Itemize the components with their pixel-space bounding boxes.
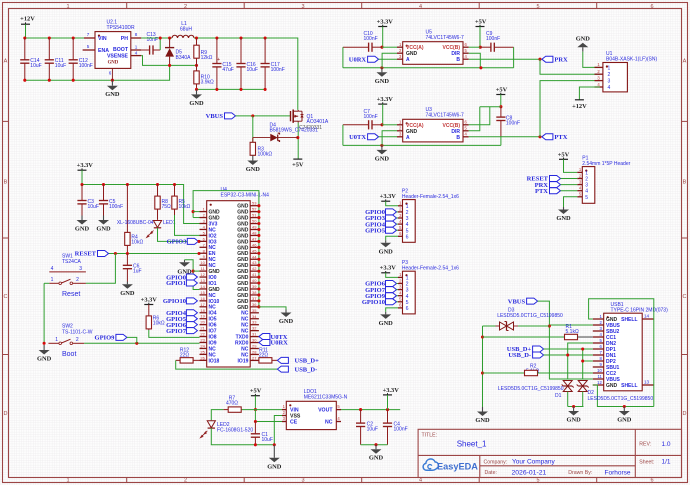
wire output cap gnd row: [197, 88, 266, 90]
pin 6 U3: [463, 124, 469, 126]
svg-text:B: B: [683, 180, 687, 186]
svg-text:Drawn By:: Drawn By:: [568, 470, 592, 476]
pin 5 P1: [577, 196, 582, 198]
svg-text:1: 1: [585, 170, 588, 176]
resistor R9 12k: [196, 38, 198, 45]
junction U2 GND bottom: [111, 79, 114, 82]
ground GND below C6: [126, 282, 128, 285]
resistor R12 22R: [176, 359, 180, 361]
junction VCCB U5: [479, 46, 482, 49]
svg-text:B340A: B340A: [176, 55, 192, 61]
junction CC2 rail: [481, 371, 484, 374]
pin 24 U4 NC: [200, 347, 207, 349]
ground GND below D1 D2: [573, 407, 575, 412]
svg-text:GND: GND: [566, 417, 581, 424]
pin 29 U4 NC: [250, 348, 259, 350]
net flag GPIO0 at P2: [386, 209, 397, 215]
wire SW1 pin1 down: [44, 282, 49, 284]
svg-text:GND: GND: [267, 463, 282, 470]
junction C11: [48, 36, 51, 39]
svg-text:20: 20: [200, 320, 205, 325]
svg-text:+5V: +5V: [475, 19, 487, 26]
net flag VBUS at USB: [527, 298, 538, 304]
wire Q1 drain to +5V: [297, 123, 299, 159]
net flag GPIO7: [186, 328, 197, 334]
junction PRX: [538, 58, 541, 61]
svg-text:13: 13: [200, 278, 205, 283]
svg-text:100nF: 100nF: [506, 120, 520, 126]
svg-text:14: 14: [200, 284, 205, 289]
wire DN1 row: [544, 354, 593, 356]
wire GND pin loop U5: [382, 53, 397, 68]
svg-text:+5V: +5V: [496, 87, 508, 94]
svg-text:4: 4: [419, 4, 422, 10]
junction U4 right GND row 50: [257, 222, 260, 225]
junction C17 top: [264, 36, 267, 39]
junction C2: [359, 408, 362, 411]
svg-text:U0RX: U0RX: [271, 340, 289, 347]
capacitor C15 47uF polarized: [216, 38, 218, 64]
pin 5 ENA: [83, 49, 95, 51]
svg-text:GND: GND: [475, 417, 490, 424]
svg-text:+5V: +5V: [292, 161, 304, 168]
junction shell gnd: [623, 405, 626, 408]
junction LDO gnd: [374, 443, 377, 446]
pin 3 LDO1: [282, 421, 286, 423]
wire C9 gnd loop right: [513, 47, 515, 68]
svg-text:B: B: [4, 180, 8, 186]
svg-text:+3.3V: +3.3V: [377, 19, 394, 26]
svg-text:48: 48: [252, 230, 257, 235]
power flag +12V below U1: [575, 99, 584, 101]
pin 4 U1: [595, 86, 603, 88]
pin 4 U3: [463, 136, 469, 138]
pin 4 U4 NC: [200, 228, 207, 230]
pin 3 USB1 SBU2: [593, 330, 604, 332]
wire +5V stem U3: [500, 95, 502, 107]
svg-text:100nF: 100nF: [486, 36, 500, 42]
wire GND to pins 11/14: [185, 260, 200, 290]
junction U4 right GND row 39: [257, 287, 260, 290]
wire U4 gnd ring top: [193, 191, 259, 307]
ground GND below R10: [196, 89, 198, 94]
pin 3 P1: [577, 184, 582, 186]
pin 21 U4 IO7: [200, 330, 207, 332]
wire +3.3V to P3 pin1: [386, 273, 398, 278]
svg-text:USB_D+: USB_D+: [295, 358, 320, 365]
junction C15 bottom: [215, 88, 218, 91]
svg-text:A: A: [683, 59, 687, 65]
svg-text:SHELL: SHELL: [621, 383, 637, 389]
pin 7 VIN: [84, 37, 95, 39]
pin 4 P2: [398, 223, 403, 225]
svg-text:GPIO7: GPIO7: [166, 328, 187, 335]
wire VBUS to Q1 gate: [236, 115, 291, 117]
capacitor C11: [48, 38, 50, 60]
pin 51 U4 GND: [250, 217, 259, 219]
junction CE node: [254, 420, 257, 423]
pin 1 P1: [577, 171, 582, 173]
junction VBUS/D4 branch: [251, 114, 254, 117]
resistor R11 22R: [258, 359, 260, 361]
wire SW1 pin2 to RESET riser: [86, 254, 116, 284]
svg-text:C: C: [4, 294, 8, 300]
svg-text:+: +: [217, 57, 220, 63]
pin 12 U4 IO0: [200, 276, 207, 278]
junction +5V node U3: [499, 105, 502, 108]
svg-text:TS24CA: TS24CA: [62, 259, 82, 265]
svg-text:GND: GND: [617, 417, 632, 424]
wire PH node: [141, 37, 172, 39]
junction PH/D5: [168, 36, 171, 39]
svg-text:D: D: [4, 411, 8, 417]
pin 5 LDO1: [336, 409, 341, 411]
wire VSENSE feedback: [141, 56, 196, 66]
pin 26 U4 IO18: [200, 359, 207, 361]
wire P1 pin5 to GND: [564, 197, 578, 207]
junction C1 bottom: [254, 443, 257, 446]
junction RESET/R4/C6: [126, 252, 129, 255]
svg-text:REV:: REV:: [639, 442, 651, 448]
svg-text:IO18: IO18: [209, 358, 220, 364]
wire RESET row to EN: [109, 253, 200, 255]
svg-text:XL-1608UBC-04: XL-1608UBC-04: [117, 220, 154, 226]
junction GPIO9: [135, 342, 138, 345]
svg-text:22Ω: 22Ω: [180, 353, 190, 359]
junction U4 right GND row 42: [257, 270, 260, 273]
pin 2 P2: [398, 211, 403, 213]
TVS diode D2 LESD5D5.0CT1G: [578, 381, 587, 392]
pin 3 U4 3V3: [200, 223, 207, 225]
net flag PTX: [542, 134, 553, 140]
pin 1 BOOT: [131, 49, 142, 51]
pin 39 U4 GND: [250, 288, 259, 290]
svg-text:10uF: 10uF: [55, 63, 66, 69]
wire GPIO3 to IO3 pin: [198, 240, 199, 242]
junction IO3 pin: [197, 240, 200, 243]
pin 1 LDO1: [282, 409, 286, 411]
pin 31 U4 TXD0: [250, 336, 259, 338]
svg-text:TITLE:: TITLE:: [422, 432, 438, 438]
pin 6 USB1 DP1: [593, 348, 604, 350]
junction U4 right GND row 47: [257, 240, 260, 243]
wire +5V stem LDO: [254, 396, 256, 410]
svg-text:NC: NC: [325, 420, 333, 426]
junction rail R5: [173, 183, 176, 186]
svg-text:47uF: 47uF: [222, 67, 233, 73]
junction C12 bottom: [72, 79, 75, 82]
net flag GPIO3 at P2: [386, 215, 397, 221]
svg-text:GPIO10: GPIO10: [163, 298, 186, 305]
junction PTX: [538, 135, 541, 138]
svg-text:GND: GND: [375, 78, 390, 85]
ground GND below C5: [103, 216, 105, 221]
svg-text:TPS5410DR: TPS5410DR: [107, 25, 135, 31]
junction gnd stem U3: [380, 144, 383, 147]
svg-text:6: 6: [406, 306, 409, 312]
pin 44 U4 GND: [250, 258, 259, 260]
pin 4 P3: [398, 295, 403, 297]
pin 45 U4 GND: [250, 252, 259, 254]
svg-text:+3.3V: +3.3V: [377, 96, 394, 103]
pin 4 VSENSE: [131, 55, 142, 57]
svg-text:21: 21: [200, 326, 205, 331]
svg-text:GND: GND: [369, 455, 384, 462]
svg-text:2: 2: [585, 177, 588, 183]
svg-text:12kΩ: 12kΩ: [201, 55, 213, 61]
pin 13 U4 IO1: [200, 282, 207, 284]
net flag GPIO9 at P3: [386, 293, 397, 299]
svg-text:24: 24: [200, 343, 205, 348]
wire VCCA U5: [382, 46, 397, 48]
pin 7 USB1 DN1: [593, 354, 604, 356]
net flag GPIO4 at P2: [386, 221, 397, 227]
ground GND below C3: [81, 216, 83, 221]
junction DP2/D2: [581, 359, 584, 362]
svg-text:53: 53: [252, 201, 257, 206]
net flag USB_D- at U4: [277, 366, 288, 372]
junction U4 right GND row 43: [257, 264, 260, 267]
junction VCCA U3: [380, 123, 383, 126]
net flag GPIO6 at P3: [386, 281, 397, 287]
svg-text:50: 50: [252, 219, 257, 224]
pin 40 U4 GND: [250, 282, 259, 284]
svg-text:10kΩ: 10kΩ: [153, 321, 165, 327]
net flag RESET: [98, 251, 109, 257]
pin 11 U4 GND: [200, 270, 207, 272]
svg-text:12: 12: [597, 380, 602, 385]
svg-text:14: 14: [644, 313, 650, 318]
svg-text:100nF: 100nF: [271, 67, 285, 73]
wire GND row U5: [343, 67, 514, 69]
wire C2 C4 gnd row: [361, 444, 388, 446]
junction U4 right GND row 36: [257, 305, 260, 308]
svg-text:46: 46: [252, 242, 257, 247]
net flag USB_D- at USB1: [533, 352, 544, 358]
svg-text:GPIO5: GPIO5: [365, 227, 386, 234]
svg-text:10uF: 10uF: [30, 63, 41, 69]
svg-text:+3.3V: +3.3V: [380, 193, 397, 200]
ground GND below U2: [111, 80, 113, 86]
pin 6 P3: [398, 307, 403, 309]
svg-text:4: 4: [406, 294, 409, 300]
pin 10 U4 NC: [200, 264, 207, 266]
pin 1 P3: [398, 276, 403, 278]
pin 9 U4 NC: [200, 258, 207, 260]
wire PRX to U1 pin2: [540, 59, 600, 74]
svg-text:100nF: 100nF: [79, 63, 93, 69]
pin 6 P2: [398, 235, 403, 237]
pin 2 U3: [397, 130, 403, 132]
svg-text:5: 5: [406, 228, 409, 234]
pin 2 U5: [397, 52, 403, 54]
junction DP1/D2: [581, 347, 584, 350]
wire +5V to P1 pin1: [564, 159, 578, 172]
svg-text:8: 8: [135, 32, 138, 37]
svg-text:100nF: 100nF: [364, 36, 378, 42]
pin 36 U4 GND: [250, 306, 259, 308]
junction L1/R9: [195, 36, 198, 39]
net flag U0TX: [368, 134, 379, 140]
capacitor C5 100nF: [103, 185, 105, 201]
capacitor C7 100nF: [343, 124, 369, 126]
wire GND pin1 over the top to SHELL: [589, 299, 654, 319]
wire VSS riser: [274, 416, 282, 445]
pin 1 USB1 GND: [593, 318, 604, 320]
junction C11 bottom: [48, 79, 51, 82]
svg-text:CE: CE: [290, 420, 298, 426]
junction DIR gnd U5: [479, 66, 482, 69]
wire boot row to IO9: [84, 342, 199, 344]
wire P3 pin6 to GND: [386, 308, 398, 312]
wire PRX P1: [561, 184, 578, 186]
pin 50 U4 GND: [250, 223, 259, 225]
pin 22 U4 IO8: [200, 336, 207, 338]
net flag GPIO5: [186, 316, 197, 322]
ruler row ticks: [3, 120, 9, 122]
svg-text:17: 17: [200, 302, 205, 307]
net flag U0RX at U4: [259, 340, 270, 346]
pin 4 LDO1: [336, 421, 341, 423]
net flag GPIO6: [186, 322, 197, 328]
capacitor C10 100nF: [343, 46, 369, 48]
svg-text:Boot: Boot: [62, 351, 76, 358]
svg-text:22Ω: 22Ω: [259, 353, 269, 359]
svg-text:75Ω: 75Ω: [162, 204, 172, 210]
svg-text:1: 1: [66, 478, 69, 484]
svg-text:2026-01-21: 2026-01-21: [512, 469, 547, 476]
svg-text:GND: GND: [375, 155, 390, 162]
svg-text:42: 42: [252, 266, 257, 271]
pin 48 U4 GND: [250, 234, 259, 236]
svg-text:6: 6: [109, 71, 112, 76]
wire DN2 jog to D1: [568, 343, 593, 379]
svg-text:470Ω: 470Ω: [226, 401, 238, 407]
svg-text:PRX: PRX: [554, 56, 568, 63]
svg-text:GPIO3: GPIO3: [167, 239, 188, 246]
pin 1 P2: [398, 205, 403, 207]
svg-text:100nF: 100nF: [394, 426, 408, 432]
junction C15 top: [215, 36, 218, 39]
pin 4 U5: [463, 58, 469, 60]
svg-text:10kΩ: 10kΩ: [131, 239, 143, 245]
wire GND rail left of USB: [482, 326, 484, 407]
wire B U3 to PTX: [469, 136, 540, 138]
pin 5 P2: [398, 229, 403, 231]
pin 14 U4 GND: [200, 288, 207, 290]
wire P2 pin6 to GND: [386, 236, 398, 240]
capacitor C16 10uF: [240, 38, 242, 64]
pin 5 P3: [398, 301, 403, 303]
pin 37 U4 GND: [250, 300, 259, 302]
junction U4 right GND row 45: [257, 252, 260, 255]
svg-text:6: 6: [650, 4, 653, 10]
pin 16 U4 IO10: [200, 300, 207, 302]
capacitor C4 100nF: [387, 410, 389, 424]
svg-text:USB_D-: USB_D-: [295, 366, 318, 373]
pin 4 P1: [577, 190, 582, 192]
svg-text:GND: GND: [105, 91, 120, 98]
svg-text:12: 12: [200, 272, 205, 277]
junction VCCA U5: [380, 46, 383, 49]
pin 15 U4 NC: [200, 294, 207, 296]
svg-text:+12V: +12V: [572, 103, 587, 110]
net flag VBUS: [225, 113, 236, 119]
svg-text:51: 51: [252, 213, 257, 218]
pin 35 U4 NC: [250, 312, 259, 314]
svg-text:GND: GND: [379, 320, 394, 327]
svg-text:37: 37: [252, 296, 257, 301]
svg-text:RESET: RESET: [75, 251, 97, 258]
wire L1 out rail +5V: [194, 38, 298, 110]
svg-text:U0TX: U0TX: [349, 134, 366, 141]
svg-text:PTX: PTX: [554, 134, 567, 141]
junction EN pin: [197, 252, 200, 255]
wire VBUS pin2 branch: [549, 324, 592, 326]
pin 5 U3: [463, 130, 469, 132]
svg-text:1/1: 1/1: [662, 459, 671, 466]
svg-text:PTX: PTX: [535, 188, 548, 195]
net flag PRX to P1: [550, 182, 561, 188]
net flag RESET to P1: [550, 176, 561, 182]
pin 52 U4 GND: [250, 211, 259, 213]
capacitor C12: [72, 38, 74, 60]
svg-text:10uF: 10uF: [367, 426, 378, 432]
capacitor C6 1uF: [126, 254, 128, 266]
junction +12V/C14: [23, 36, 26, 39]
svg-text:19: 19: [200, 314, 205, 319]
pin 9 USB1 SBU1: [593, 366, 604, 368]
junction U4 right GND row 38: [257, 293, 260, 296]
pin 2 U1: [595, 73, 603, 75]
wire VBUS to pins 2/11: [538, 301, 593, 379]
wire DP2 jog to D2: [583, 360, 593, 362]
ground GND below SW1/SW2: [43, 345, 45, 350]
pin 3 P2: [398, 217, 403, 219]
svg-text:GND: GND: [96, 226, 111, 233]
svg-text:GND: GND: [246, 166, 261, 173]
svg-text:15: 15: [200, 290, 205, 295]
svg-text:GND: GND: [279, 318, 294, 325]
ground GND below P2: [385, 240, 387, 243]
net flag U0TX at U4: [259, 334, 270, 340]
svg-text:B5819WS_C7420331: B5819WS_C7420331: [270, 128, 319, 134]
wire C8 bottom to gnd row: [500, 137, 502, 146]
wire VBUS down to D4 and R3: [252, 116, 254, 143]
svg-text:68uH: 68uH: [180, 27, 192, 33]
svg-text:GND: GND: [120, 290, 135, 297]
wire C7 gnd loop: [342, 125, 344, 146]
svg-text:GPIO1: GPIO1: [166, 280, 186, 287]
resistor R10 3.9k: [196, 65, 198, 71]
svg-text:VBUS: VBUS: [508, 298, 526, 305]
svg-text:ME6211C33M5G-N: ME6211C33M5G-N: [304, 395, 348, 401]
EasyEDA logo: [423, 459, 478, 472]
svg-text:49: 49: [252, 225, 257, 230]
pin 3 U3: [397, 136, 403, 138]
svg-text:26: 26: [200, 355, 205, 360]
svg-text:GND: GND: [379, 248, 394, 255]
ground GND below rail: [482, 407, 484, 412]
wire GPIO9 drop: [127, 337, 137, 343]
pin 38 U4 GND: [250, 294, 259, 296]
wire +5V to VCCB U3: [480, 106, 501, 108]
ruler column ticks: [126, 3, 128, 9]
pin 2 U4 GND: [200, 217, 207, 219]
ground GND below C2 C4: [375, 445, 377, 450]
junction U4 right GND row 37: [257, 299, 260, 302]
svg-text:2: 2: [608, 72, 611, 78]
